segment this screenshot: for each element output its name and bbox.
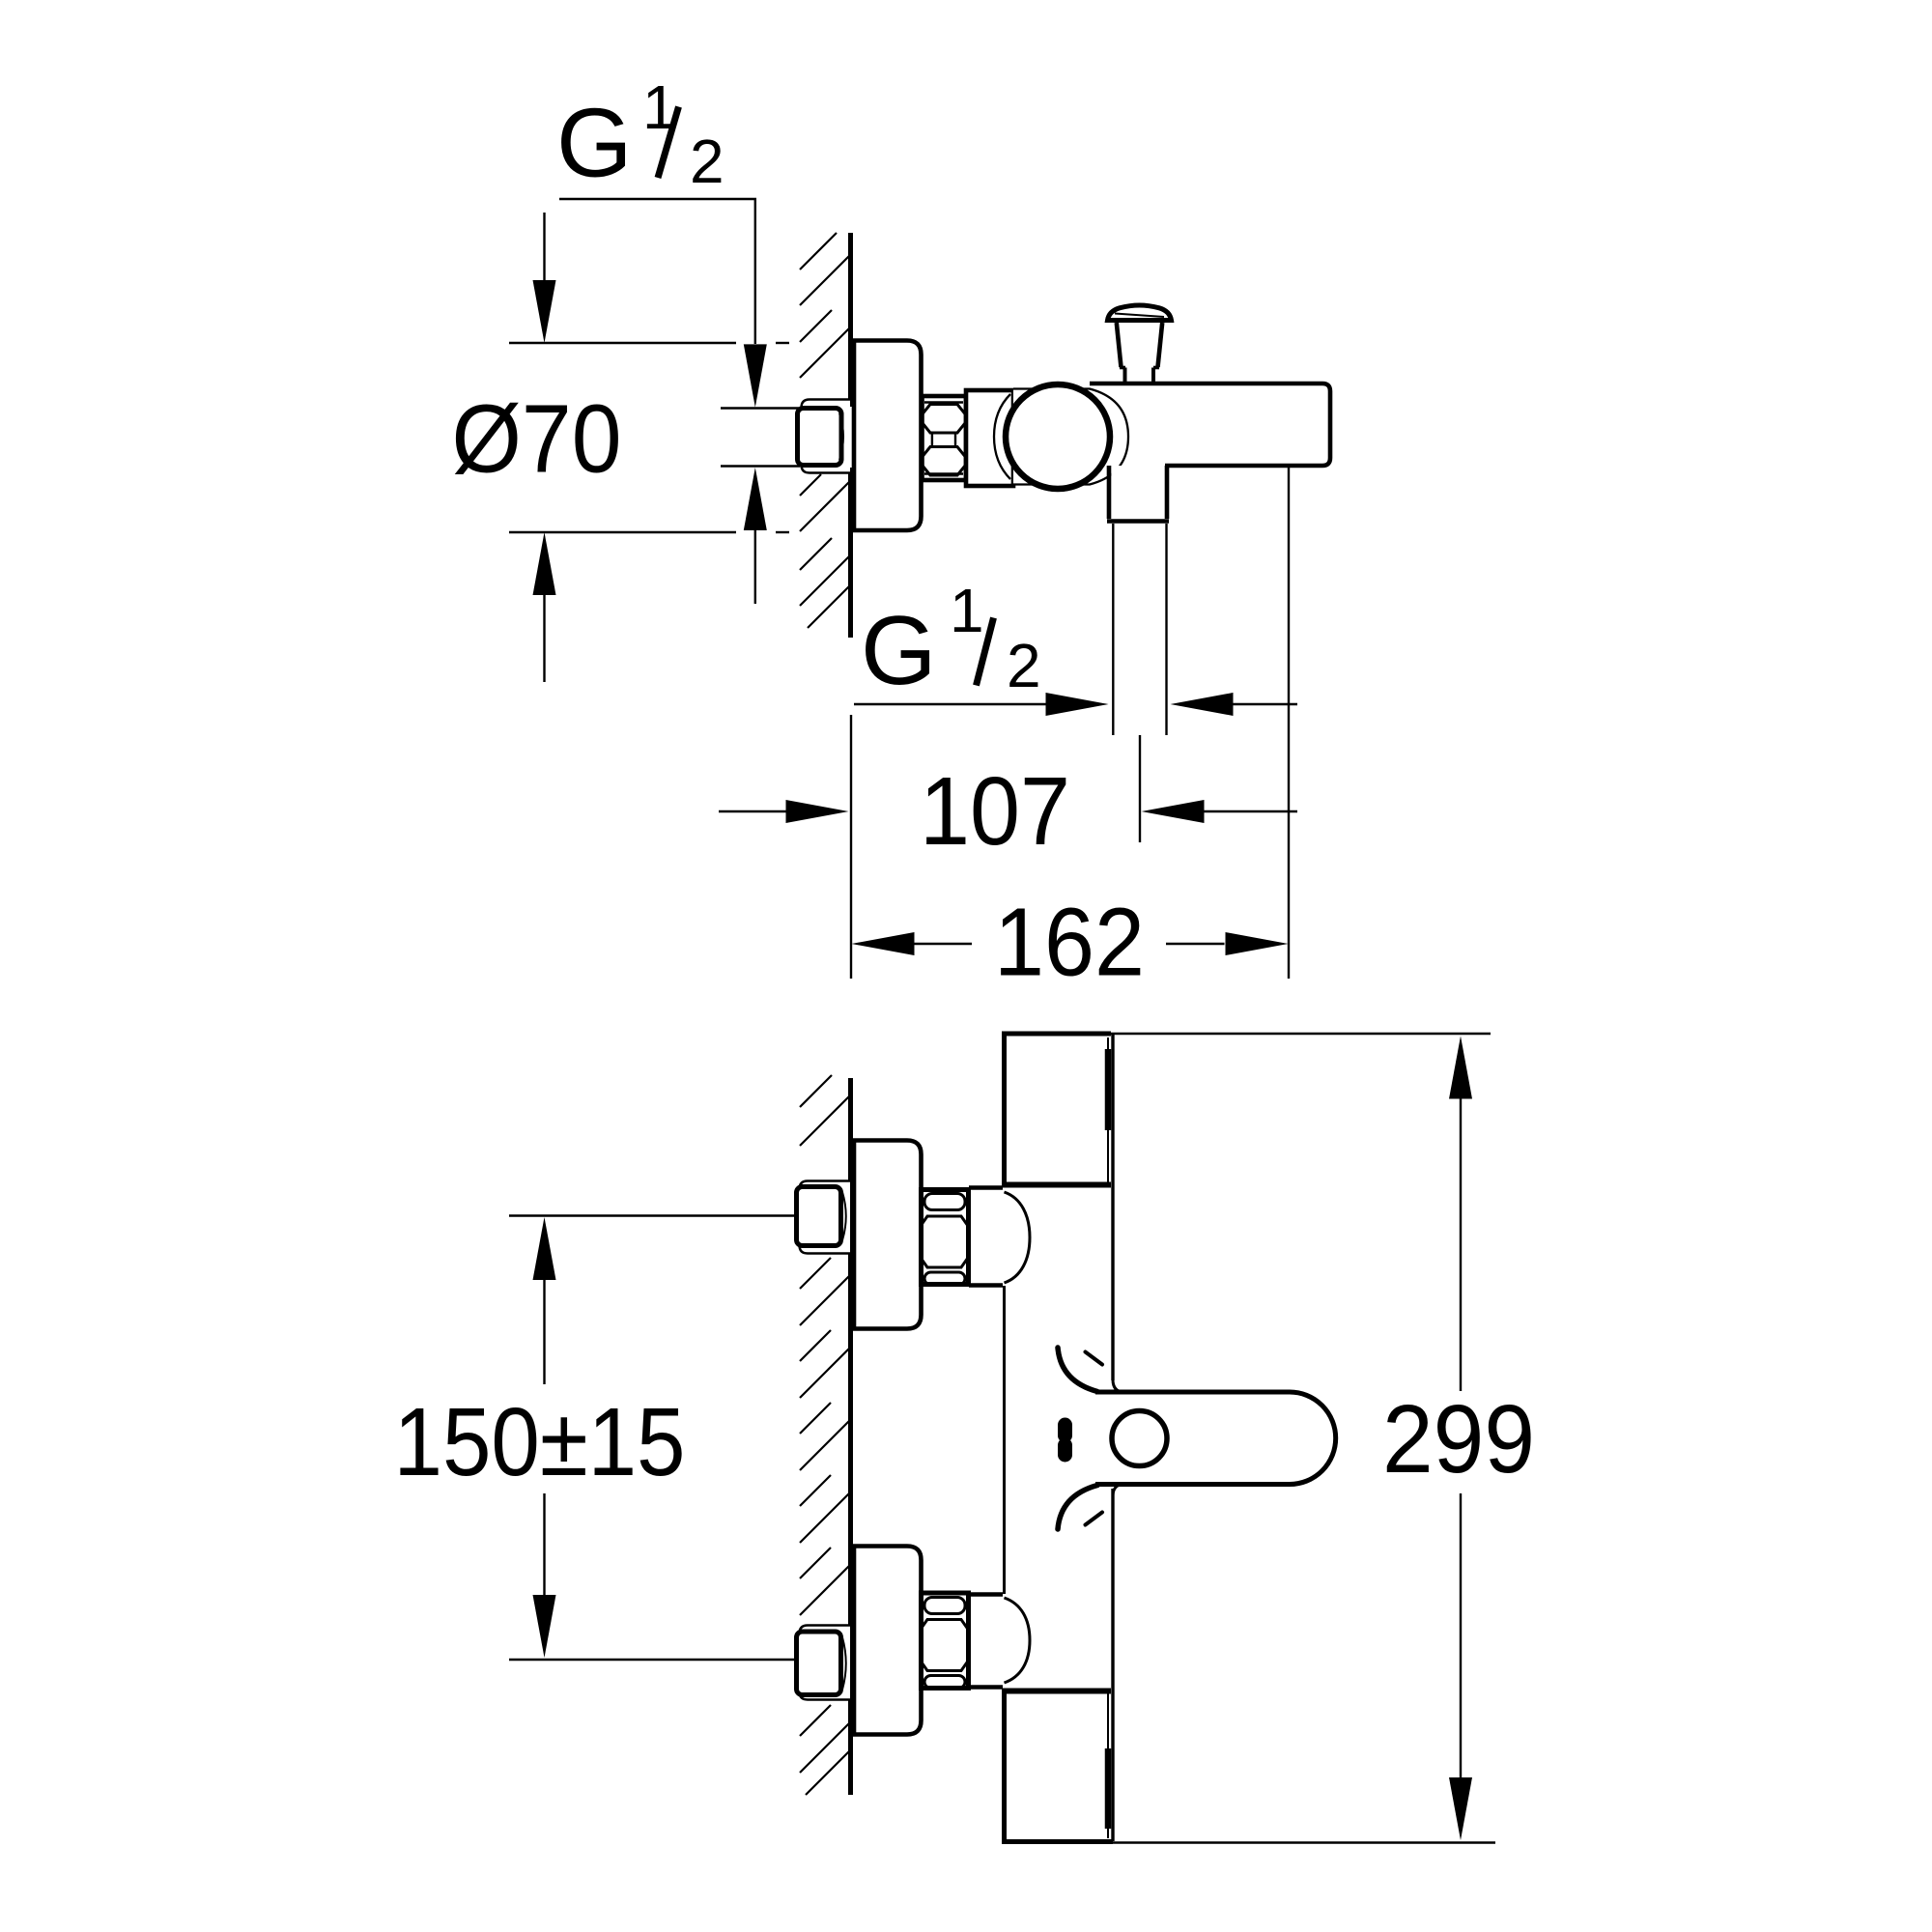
- D70 arrow down: [543, 213, 545, 282]
- svg-text:299: 299: [1382, 1385, 1535, 1493]
- lower supply: collar, square nut: [800, 1626, 851, 1700]
- swivel ball: [1006, 384, 1110, 489]
- wall extension line: [850, 715, 852, 979]
- svg-text:1: 1: [950, 576, 984, 645]
- arrow up to pipe bottom: [744, 468, 767, 530]
- hose centerline: [1139, 735, 1141, 842]
- body: mid left edge: [1003, 1286, 1006, 1594]
- spout extension line: [1288, 466, 1290, 979]
- D70 bottom extension line: [509, 531, 736, 533]
- body: face line: [1111, 1034, 1114, 1380]
- body: thermostat cap (top): [1002, 1032, 1111, 1037]
- spout barrel: [1090, 384, 1330, 466]
- reflection dashes: [1058, 1425, 1072, 1435]
- wall hatching (bottom view): [800, 1075, 851, 1795]
- diverter knob: [1108, 305, 1172, 321]
- body: bottom cap: [1002, 1689, 1111, 1694]
- svg-text:2: 2: [690, 127, 724, 196]
- svg-text:G: G: [556, 90, 633, 198]
- dimension 162: [852, 932, 915, 955]
- supply pipe through wall: [721, 410, 849, 465]
- body waist curves: [1058, 1348, 1097, 1392]
- lower hex nut: [922, 1593, 969, 1689]
- shower outlet nipple: [1111, 466, 1164, 520]
- leader bracket for G 1/2: [559, 199, 755, 344]
- label G 1/2 (second): [861, 576, 1041, 705]
- upper supply: collar, square nut: [800, 1181, 851, 1254]
- svg-text:G: G: [861, 597, 937, 705]
- pipe collar behind nut: [802, 400, 851, 473]
- lower flange: [854, 1547, 922, 1735]
- upper flange: [854, 1141, 922, 1329]
- upper hex nut: [922, 1190, 969, 1285]
- square nut on supply pipe: [798, 409, 842, 466]
- hex union nut (top view): [923, 396, 967, 480]
- upper horn: [969, 1185, 1003, 1190]
- dimension 150+-15: [509, 1214, 796, 1216]
- dimension 107: [719, 810, 786, 812]
- dimension 299: [1111, 1033, 1491, 1035]
- hose lines: [1112, 524, 1114, 735]
- lever handle: [1095, 1392, 1336, 1485]
- wall hatching (top view): [800, 233, 851, 628]
- dimension D70: top extension line: [509, 342, 736, 344]
- wall (bottom view): [848, 1078, 853, 1795]
- arrow down to pipe top: [744, 344, 767, 407]
- lower horn: [969, 1592, 1003, 1597]
- G1/2 dimension arrows at hose: [854, 703, 1048, 705]
- label G 1/2 (top): [556, 72, 724, 198]
- svg-text:107: 107: [920, 757, 1070, 866]
- wall (top view): [848, 233, 853, 407]
- svg-text:162: 162: [994, 889, 1145, 997]
- svg-text:Ø70: Ø70: [452, 385, 622, 494]
- svg-text:2: 2: [1007, 631, 1041, 700]
- cartridge housing: [966, 390, 1013, 486]
- thin capsule around swivel ball: [1013, 389, 1128, 485]
- D70 arrow up: [533, 532, 556, 595]
- wall flange (top view): [854, 341, 922, 531]
- svg-text:150±15: 150±15: [394, 1388, 686, 1496]
